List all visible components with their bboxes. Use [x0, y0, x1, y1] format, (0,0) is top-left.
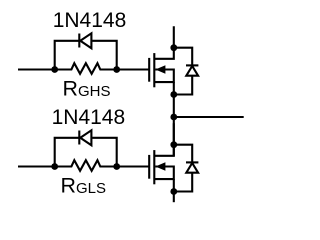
svg-text:RGLS: RGLS	[61, 173, 106, 197]
svg-text:RGHS: RGHS	[63, 76, 111, 100]
svg-text:1N4148: 1N4148	[53, 9, 127, 32]
svg-text:1N4148: 1N4148	[52, 106, 126, 129]
